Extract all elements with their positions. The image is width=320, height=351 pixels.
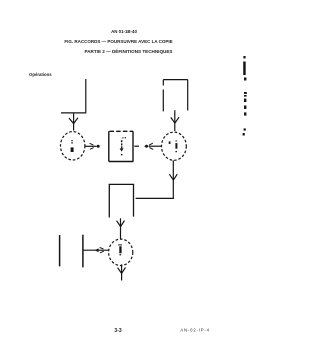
arrowhead P3 discharge bbox=[118, 267, 126, 273]
arrowhead toward outlet bbox=[95, 248, 99, 252]
wire P3 discharge bbox=[121, 264, 123, 280]
arrowhead into P2 bbox=[171, 117, 179, 123]
tank T1 bottom bar bbox=[61, 112, 86, 114]
arrowhead into P1 bbox=[69, 118, 78, 124]
svg-text:AN-02-IP-4: AN-02-IP-4 bbox=[180, 328, 209, 333]
tank T1 inlet pipe bbox=[85, 79, 87, 112]
svg-text:AN 01-1B-40: AN 01-1B-40 bbox=[111, 29, 137, 34]
node dot P2 outlet bbox=[144, 145, 148, 148]
binding marks right edge bbox=[243, 56, 247, 136]
P3 label marks bbox=[118, 244, 122, 255]
manifold M1 box bbox=[109, 131, 134, 161]
dash stub at M1 right port bbox=[134, 145, 139, 147]
P1 label marks bbox=[71, 140, 74, 152]
tank T3 shell bbox=[109, 184, 133, 217]
arrowhead into P3 bbox=[117, 221, 125, 227]
svg-text:Opérations: Opérations bbox=[29, 72, 52, 77]
pump P3 bbox=[109, 239, 133, 265]
outlet bar B1 bbox=[59, 235, 61, 266]
pump P2 bbox=[162, 132, 187, 160]
outlet bar B2 bbox=[82, 235, 84, 268]
arrowhead P2 to M1 bbox=[149, 143, 153, 149]
tank T2 right wall bbox=[187, 80, 189, 111]
wire T3 to pump P3 bbox=[120, 218, 122, 238]
svg-text:PARTIE 2 — DÉFINITIONS TECHNIQ: PARTIE 2 — DÉFINITIONS TECHNIQUES bbox=[85, 47, 173, 54]
P2 label marks bbox=[169, 141, 178, 153]
M1 internal flow arrow bbox=[120, 137, 126, 155]
pump P1 bbox=[60, 132, 84, 160]
wire P1 to manifold M1 bbox=[85, 145, 97, 147]
wire P2 down bbox=[172, 160, 174, 198]
wire P2 to manifold M1 bbox=[149, 145, 162, 147]
svg-text:3-3: 3-3 bbox=[114, 328, 121, 334]
wire T1 to pump P1 bbox=[73, 113, 75, 131]
tank T2 shell top bbox=[163, 79, 187, 81]
wire elbow to tank T3 bbox=[136, 197, 174, 199]
arrowhead dashes bbox=[100, 247, 104, 252]
node dot P1 outlet bbox=[97, 145, 100, 148]
arrowhead P2 drop bbox=[169, 174, 177, 180]
tank T2 left wall bbox=[162, 80, 164, 112]
wire P3 to outlet bbox=[84, 249, 109, 251]
arrowhead P1 to M1 bbox=[90, 143, 94, 149]
svg-text:FIG. RACCORDS — POURSUIVRE AVE: FIG. RACCORDS — POURSUIVRE AVEC LA COPIE bbox=[64, 39, 172, 44]
wire T2 to pump P2 bbox=[174, 110, 176, 131]
